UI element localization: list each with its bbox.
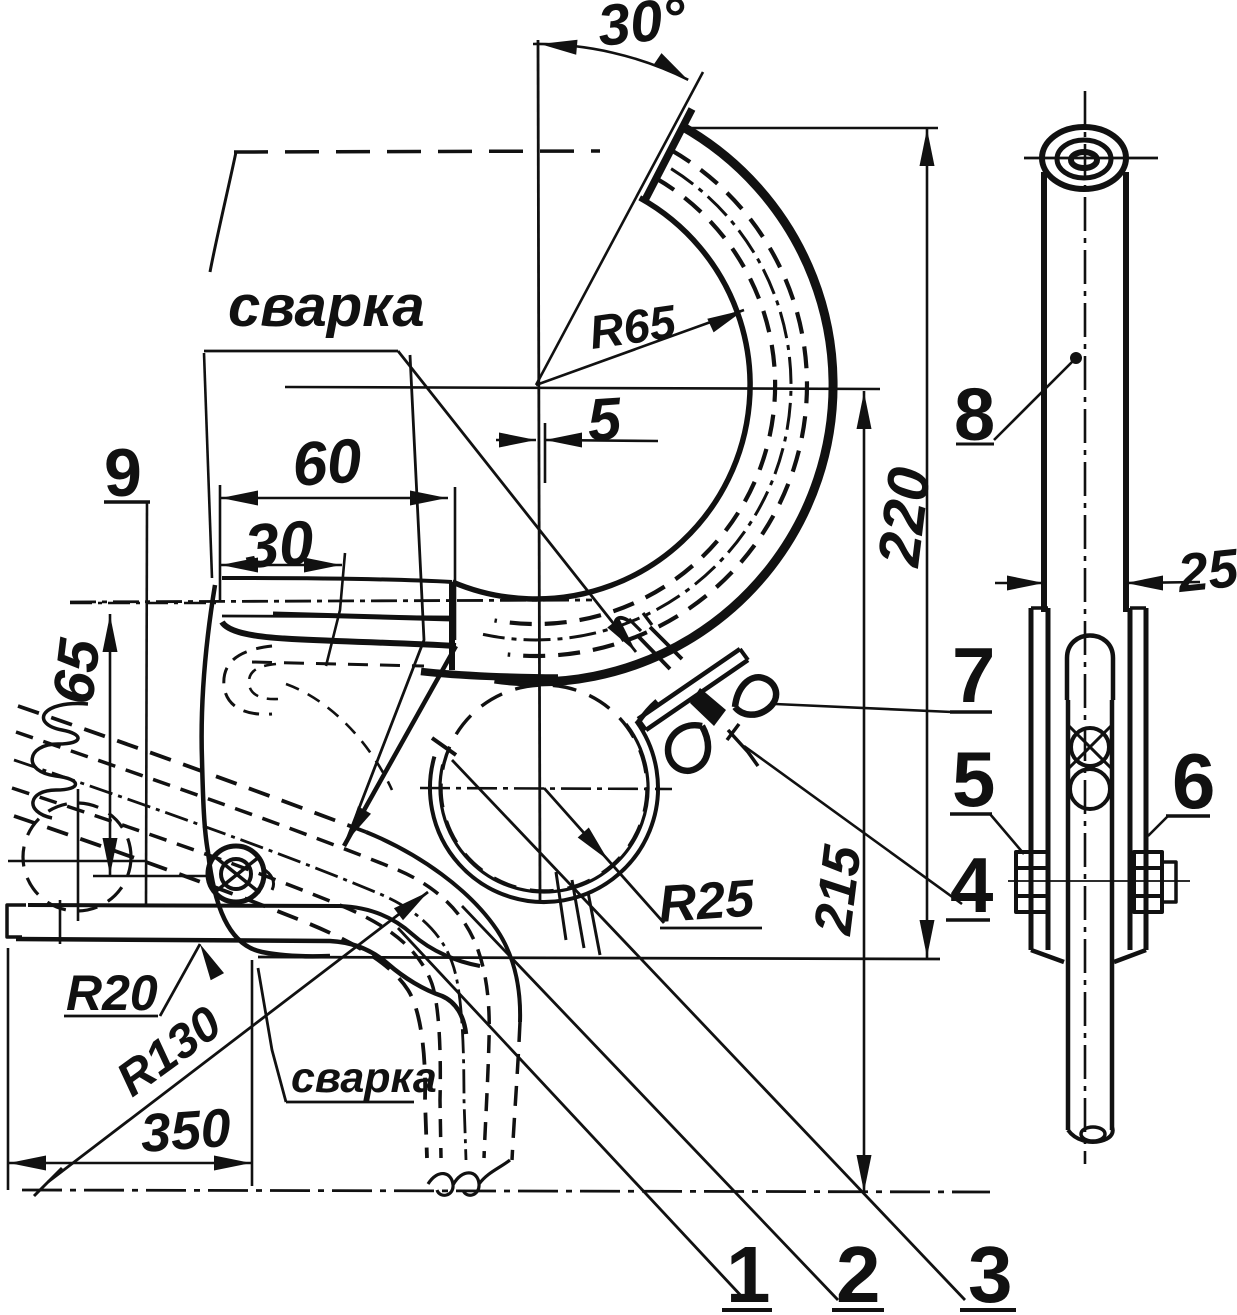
dimension 65 top arrowhead (103, 615, 118, 652)
clamp strap flange plate (638, 649, 748, 730)
slot cross hatch (1067, 724, 1113, 770)
dimension 215 top arrowhead (857, 392, 872, 429)
svg-text:1: 1 (726, 1230, 771, 1315)
sleeve top edges (1031, 606, 1146, 610)
svg-text:60: 60 (290, 426, 364, 500)
weld hatch stroke 3 (588, 892, 600, 955)
dimension 350 left extension line (7, 948, 10, 1190)
detent ball upper (1071, 728, 1109, 766)
label R25 underline (660, 927, 762, 930)
svarka leader arrowhead (607, 618, 636, 652)
hidden tube curve to steering tube (286, 684, 392, 790)
sleeve bottom edges (1031, 950, 1146, 962)
tube centerline (dash-dot) (70, 600, 592, 602)
part label 4 underline (946, 918, 990, 922)
dimension 60 left arrowhead (221, 491, 258, 506)
svg-text:65: 65 (40, 635, 112, 708)
nut centerline (1008, 880, 1190, 882)
svarka leader to clamp weld (398, 351, 636, 652)
dimension 5 line left (496, 439, 536, 442)
dimension 350 right arrowhead (214, 1156, 251, 1171)
dimension 65 bottom arrowhead (103, 838, 118, 875)
dimension 30 right arrowhead (304, 558, 341, 573)
clamp strap neck (637, 701, 657, 724)
svg-text:3: 3 (968, 1230, 1013, 1315)
horizontal centerline through bend center (285, 387, 880, 389)
offset tick for dimension 5 (544, 423, 547, 483)
svg-text:30°: 30° (595, 0, 690, 59)
side view tube right edge (1123, 172, 1129, 612)
part label 2 underline (832, 1308, 884, 1312)
sleeve outer right edge (1144, 608, 1149, 950)
angle dimension arc (533, 44, 688, 80)
part 7 leader line (775, 704, 952, 712)
steering tube lower edge (dashed) (14, 816, 427, 1158)
angle dimension arrowhead left (540, 40, 578, 55)
R20 leader line (160, 944, 200, 1016)
tube end cut line at bracket (449, 582, 455, 670)
svarka bottom underline (286, 1101, 414, 1104)
steering tube bore line upper (dashed) (16, 732, 489, 1158)
dimension 30 left arrowhead (221, 558, 258, 573)
hidden tube end inner dashed U (249, 664, 278, 699)
bracket plate 9 top fold edge (222, 622, 456, 646)
bracket plate 9 right edge (344, 646, 456, 846)
svg-text:5: 5 (585, 385, 625, 454)
grip tube top edge with R20 bend (28, 905, 480, 966)
side view vertical centerline (1084, 91, 1087, 1164)
svg-text:4: 4 (950, 841, 993, 929)
tube bend bottom outer edge segment (421, 672, 558, 679)
sleeve inner left edge (1046, 608, 1051, 950)
part label 3 underline (960, 1308, 1016, 1312)
part 1 leader line (398, 928, 745, 1300)
svg-text:2: 2 (836, 1230, 881, 1315)
dimension 60 right extension line (454, 487, 457, 640)
flattened tube edge thin line (222, 616, 452, 617)
steering tube upper edge (hidden, dashed) (18, 706, 366, 832)
hidden circle vertical centerline (77, 789, 80, 921)
part 3 leader line (452, 760, 965, 1300)
inner rod bottom end (1068, 1127, 1113, 1142)
part 4 leader line (744, 746, 962, 904)
dimension 25 right line (1126, 582, 1200, 583)
svarka bottom leader line (258, 968, 286, 1102)
flattened tube hidden bottom edge (dashed) (252, 662, 424, 666)
clamp circle horizontal centerline (420, 788, 672, 789)
vertical centerline through bend center (538, 40, 540, 902)
flattened tube lower edge thick segment (273, 614, 452, 619)
dimension 25 right arrowhead (1126, 576, 1163, 591)
angle dimension arrowhead right (653, 53, 688, 80)
dashed reference line top left (234, 151, 600, 152)
bolt head cross stroke (214, 856, 260, 893)
part 2 leader line (462, 906, 838, 1300)
part label 7 underline (950, 710, 992, 714)
dimension 220 vertical line (926, 128, 929, 958)
clamp strap inner edge (440, 724, 648, 892)
steering tube break squiggle (bottom) (428, 1160, 510, 1195)
tube end cut at 30 degrees (645, 109, 692, 200)
inner rod bottom opening ellipse (1081, 1127, 1105, 1141)
side view top ellipse inner (1071, 152, 1097, 168)
side view top ellipse middle (1057, 140, 1111, 178)
side view top ellipse outer (1042, 127, 1126, 189)
flange end caps (638, 649, 748, 730)
hidden circle horizontal centerline (8, 860, 146, 863)
part label 8 underline (956, 443, 994, 446)
dimension 215 vertical line (863, 391, 866, 1193)
steering tube upper edge solid in bend (366, 832, 520, 1022)
svarka top underline (204, 350, 398, 353)
weld hatch stroke 1 (556, 872, 566, 940)
hidden tube end inside plate (dashed U) (224, 646, 272, 714)
clamp strap outer edge (430, 721, 658, 902)
svg-text:сварка: сварка (291, 1054, 437, 1102)
sleeve inner right edge (1128, 608, 1133, 950)
dimension 60 left extension line (219, 485, 222, 600)
dimension 30 line (220, 564, 342, 567)
R25 radius leader line (544, 788, 664, 923)
svg-text:сварка: сварка (228, 274, 425, 339)
clamp strap tab at tube (615, 618, 630, 641)
part 6 leader line (1148, 816, 1168, 836)
steering tube break squiggle (left) (32, 704, 88, 818)
adjustment slot with rounded top (1067, 636, 1113, 701)
svg-text:5: 5 (952, 735, 995, 823)
svg-text:220: 220 (865, 464, 943, 571)
bolt head cross stroke 2 (215, 857, 259, 892)
grip tube bottom edge with R20 bend (16, 939, 466, 1034)
svg-text:215: 215 (803, 841, 873, 938)
sleeve outer left edge (1029, 608, 1034, 950)
side view tube left edge (1041, 172, 1047, 612)
left nut 5 (1016, 852, 1048, 912)
reference corner line top left (210, 152, 236, 272)
dimension 350 line (8, 1162, 252, 1165)
dimension 220 top arrowhead (920, 129, 935, 166)
dimension 25 left line (995, 582, 1044, 585)
wing nut lower ear (668, 725, 708, 771)
hidden grip tube cross-section circle (23, 803, 131, 911)
dimension 60 line (220, 497, 448, 500)
steering tube bore line lower (dashed) (12, 788, 441, 1158)
dimension 25 extension tick left (1043, 560, 1045, 610)
R25 leader arrowhead (578, 828, 608, 861)
flattened tube top edge (222, 578, 452, 582)
tube bend centerline arc (dash-dot) (483, 169, 791, 640)
dimension 25 extension tick right (1125, 560, 1127, 610)
part 9 leader line (146, 502, 147, 906)
clamp bolt shaft (638, 627, 682, 669)
wing nut body (690, 688, 726, 726)
clamp tube cross-section circle (dashed) (441, 685, 647, 891)
tube bend hidden bore line (inner dashed arc) (495, 178, 776, 624)
dimension 215 bottom arrowhead (857, 1155, 872, 1192)
bolt head curl (262, 868, 274, 890)
svg-text:350: 350 (139, 1098, 233, 1164)
right nut 6 (1134, 852, 1162, 912)
tube bend outer contour (main view) (495, 125, 833, 682)
right nut washer block (1162, 862, 1176, 902)
dimension 65 vertical line (109, 614, 112, 876)
steering tube right edge below bend (dashed) (512, 1022, 520, 1160)
wing nut upper ear (735, 677, 776, 714)
grip tube end cap ticks (59, 900, 62, 944)
svg-text:R25: R25 (657, 869, 757, 934)
extension for dimension 215 (558, 390, 880, 391)
R130 radius leader line (48, 892, 428, 1182)
R65 leader arrowhead (707, 310, 744, 332)
steering tube centerline (dash-dot) (14, 760, 466, 1160)
extension line top for dimension 220 (680, 127, 938, 130)
svarka leader to plate weld (346, 355, 424, 842)
wing bolt washer ticks (727, 724, 758, 766)
part 8 leader dot (1070, 352, 1082, 364)
svarka underline extension to plate (204, 353, 212, 578)
svarka plate weld arrowhead (346, 806, 371, 842)
dimension 60 right arrowhead (410, 491, 447, 506)
grip tube end cap (7, 905, 26, 937)
dimension 350 right extension line (251, 960, 254, 1186)
part 8 leader line (994, 358, 1076, 440)
dimension 220 bottom arrowhead (920, 920, 935, 957)
dimension 30 right extension line (326, 553, 345, 666)
part 5 leader line (990, 814, 1024, 854)
svg-text:R20: R20 (66, 965, 158, 1021)
dimension 5 arrowhead right (545, 433, 582, 448)
bolt head inner circle (221, 859, 251, 889)
dimension 5 arrowhead left (499, 433, 536, 448)
bottom centerline (dash-dot) (22, 1190, 990, 1192)
svg-text:6: 6 (1172, 737, 1215, 825)
30-degree construction line (536, 72, 703, 385)
svg-text:9: 9 (104, 435, 142, 511)
inner rod edges (1068, 700, 1112, 1130)
svg-text:25: 25 (1174, 538, 1237, 604)
part label 1 underline (722, 1308, 772, 1312)
centerline for dimension 65 (dash-dot) (70, 602, 218, 605)
bolt head on plate (outer circle) (208, 846, 264, 902)
dimension 25 left arrowhead (1007, 576, 1044, 591)
reference line at tube bottom level (258, 957, 940, 959)
tube bend hidden bore line (outer dashed arc) (508, 150, 807, 656)
label R20 underline (64, 1015, 158, 1018)
part label 9 underline (104, 500, 150, 504)
R130 center tick (34, 1168, 62, 1196)
R20 leader arrowhead (200, 944, 224, 980)
tube bend inner contour (452, 198, 750, 599)
clamp strap end tab (432, 738, 456, 755)
R65 radius leader line (536, 310, 744, 385)
bracket plate 9 outline (202, 585, 330, 956)
part label 6 underline (1166, 814, 1210, 818)
R130 leader arrowhead (394, 892, 428, 920)
clamp bolt upper end (629, 613, 652, 631)
dimension 5 line right (545, 440, 658, 441)
detent ball lower (1070, 769, 1110, 809)
svg-text:7: 7 (952, 631, 995, 719)
svg-text:30: 30 (242, 508, 316, 582)
weld hatch stroke 2 (572, 880, 584, 948)
bolt center reference line (93, 875, 206, 878)
dimension 350 left arrowhead (9, 1156, 46, 1171)
part label 5 underline (950, 812, 992, 816)
side view top horizontal centerline (1024, 157, 1158, 160)
